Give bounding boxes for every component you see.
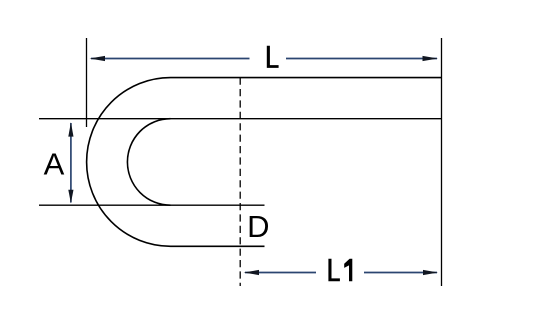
svg-text:D: D xyxy=(247,209,269,244)
svg-text:A: A xyxy=(44,146,65,181)
